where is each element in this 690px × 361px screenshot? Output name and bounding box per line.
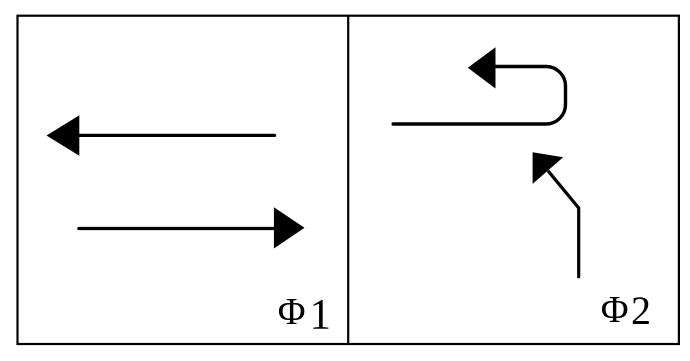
svg-text:Φ: Φ bbox=[278, 291, 306, 333]
u-turn arrow (panel 2) : wire bbox=[393, 67, 565, 125]
svg-text:1: 1 bbox=[310, 291, 332, 338]
panel divider wire bbox=[347, 16, 349, 344]
svg-text:Φ: Φ bbox=[601, 289, 629, 331]
right-pointing arrow (panel 1 bottom) : wire bbox=[79, 227, 274, 230]
bent diagonal arrow (panel 2) : vertical wire bbox=[577, 208, 580, 277]
left-pointing arrow (panel 1 top) : head bbox=[47, 115, 80, 155]
bent diagonal arrow (panel 2) : diagonal wire bbox=[548, 171, 579, 208]
right-pointing arrow (panel 1 bottom) : head bbox=[274, 207, 305, 248]
u-turn arrow (panel 2) : head bbox=[468, 47, 496, 88]
bent diagonal arrow (panel 2) : head bbox=[533, 152, 564, 184]
left-pointing arrow (panel 1 top) : wire bbox=[78, 134, 275, 137]
svg-text:2: 2 bbox=[631, 288, 651, 333]
